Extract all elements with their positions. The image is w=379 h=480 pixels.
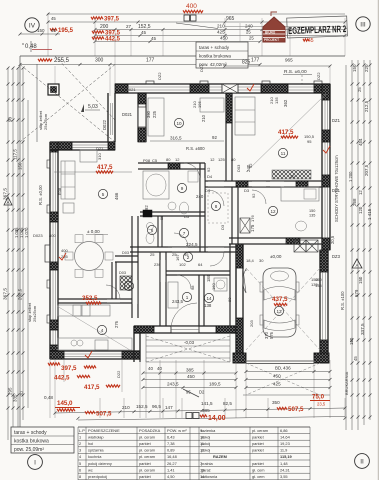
svg-text:138: 138: [204, 303, 212, 308]
svg-text:45: 45: [141, 30, 147, 35]
svg-text:92: 92: [212, 135, 217, 140]
svg-text:D03: D03: [236, 164, 241, 172]
svg-text:466: 466: [114, 192, 119, 200]
svg-text:45: 45: [51, 28, 57, 33]
column note slup zelbet (upper): [38, 110, 48, 130]
svg-text:210: 210: [122, 405, 130, 410]
svg-text:gł. cem: gł. cem: [252, 474, 265, 479]
pantry shelf wall (y262): [115, 256, 138, 262]
svg-text:177: 177: [146, 58, 155, 64]
svg-text:12: 12: [270, 209, 276, 214]
section marker A: [4, 197, 12, 205]
svg-text:64: 64: [198, 262, 203, 267]
svg-text:pow. 25,09m²: pow. 25,09m²: [14, 447, 44, 453]
boiler kotlownia: [214, 278, 227, 291]
svg-text:98: 98: [190, 285, 195, 290]
kitchen north wall (y299): [58, 285, 132, 303]
dining table round with chairs: [65, 235, 113, 278]
svg-text:C5: C5: [152, 158, 158, 163]
left bottom extension lines: [50, 360, 122, 418]
svg-text:80: 80: [227, 297, 232, 302]
svg-text:4: 4: [101, 328, 104, 333]
svg-text:D22: D22: [116, 370, 121, 378]
svg-text:D021: D021: [122, 112, 133, 117]
svg-text:450: 450: [187, 374, 195, 379]
red 145,0 row: [44, 395, 347, 415]
svg-text:pokój: pokój: [201, 448, 210, 453]
outer wall right upper: [322, 84, 330, 250]
svg-text:95: 95: [159, 215, 164, 220]
level note 5,03: [81, 104, 100, 112]
svg-text:25: 25: [150, 252, 155, 257]
svg-text:I: I: [34, 460, 36, 467]
svg-text:wiatrołap: wiatrołap: [88, 434, 104, 439]
svg-text:A: A: [355, 263, 358, 268]
svg-text:210: 210: [217, 24, 225, 29]
garage small dims: [249, 277, 318, 327]
red 417,5 bottom: [84, 384, 120, 391]
scan edge right: [377, 0, 379, 480]
wc fixtures: [146, 223, 154, 244]
svg-text:0,48: 0,48: [44, 395, 53, 400]
left small dims 150 / 45: [19, 28, 61, 36]
svg-text:16,48: 16,48: [167, 454, 177, 459]
wc east wall: [158, 216, 162, 247]
outer wall bottom living: [50, 351, 140, 359]
svg-text:4,50: 4,50: [167, 474, 175, 479]
room circle 11: [278, 148, 287, 157]
svg-text:442,5: 442,5: [105, 37, 121, 43]
svg-text:175: 175: [250, 224, 255, 232]
svg-text:240: 240: [196, 194, 204, 199]
svg-text:95: 95: [184, 252, 189, 257]
svg-text:1: 1: [79, 434, 81, 439]
svg-text:12: 12: [175, 157, 180, 162]
wiatrolap west wall: [160, 252, 166, 326]
bottom long line with 14,00: [77, 413, 347, 423]
svg-text:295: 295: [8, 387, 13, 395]
room circle 6: [147, 225, 156, 234]
svg-text:parkiet: parkiet: [252, 461, 265, 466]
svg-text:240: 240: [246, 164, 251, 172]
room 12 furniture: [250, 187, 319, 231]
red 442,5 bottom: [54, 375, 90, 382]
datum circle III: [356, 17, 370, 31]
svg-text:DZ3: DZ3: [332, 254, 341, 259]
svg-text:garaż: garaż: [201, 467, 211, 472]
svg-text:DZ2: DZ2: [316, 72, 321, 80]
svg-text:239: 239: [154, 262, 161, 267]
svg-text:352,5: 352,5: [82, 295, 98, 302]
right dimension chains: [330, 60, 372, 430]
svg-text:220: 220: [364, 64, 369, 72]
svg-text:367,5: 367,5: [3, 288, 9, 300]
svg-text:117,5: 117,5: [13, 149, 18, 160]
svg-text:120: 120: [358, 206, 363, 214]
svg-text:362: 362: [283, 99, 288, 107]
wall living-east / porch west: [134, 326, 140, 362]
svg-text:189,5: 189,5: [209, 382, 221, 387]
svg-text:417,5: 417,5: [84, 384, 100, 391]
svg-text:24,31: 24,31: [280, 467, 290, 472]
svg-text:kuchnia: kuchnia: [88, 454, 102, 459]
top dimension chains: [47, 3, 347, 56]
svg-text:210: 210: [201, 114, 206, 122]
svg-text:pralnia: pralnia: [201, 461, 214, 466]
svg-text:D021: D021: [126, 87, 136, 92]
room circle 8: [211, 201, 220, 210]
svg-text:parkiet: parkiet: [139, 461, 152, 466]
svg-text:45: 45: [51, 16, 56, 21]
svg-text:243,5: 243,5: [167, 382, 179, 387]
svg-text:DZ1: DZ1: [332, 188, 341, 193]
svg-text:III: III: [360, 22, 366, 29]
svg-text:400: 400: [186, 3, 197, 10]
svg-text:240: 240: [245, 24, 253, 29]
svg-text:13: 13: [276, 309, 282, 314]
svg-text:425: 425: [217, 30, 225, 35]
wall hol/wiatrolap horizontal (y271): [166, 271, 230, 275]
svg-text:pokój: pokój: [201, 434, 210, 439]
svg-text:D21: D21: [96, 146, 104, 151]
svg-text:184: 184: [206, 274, 211, 282]
svg-text:11: 11: [281, 151, 286, 156]
svg-text:965: 965: [226, 16, 235, 22]
svg-text:150: 150: [349, 337, 354, 345]
pantry door pier: [120, 276, 132, 290]
svg-text:316,5: 316,5: [170, 136, 182, 141]
svg-text:R.S. ±0,00: R.S. ±0,00: [38, 185, 43, 205]
svg-text:POSADZKA: POSADZKA: [139, 428, 161, 433]
room circle 1: [182, 292, 191, 301]
svg-text:7,38: 7,38: [167, 441, 175, 446]
svg-text:195,5: 195,5: [58, 28, 74, 34]
room table: [78, 427, 310, 480]
dashed RS line: [301, 75, 303, 84]
svg-text:pł. ceram: pł. ceram: [139, 454, 155, 459]
terrace column top-left: [48, 84, 59, 95]
chimney X blocks garage top: [294, 240, 318, 252]
interior dimension labels: [96, 99, 288, 345]
svg-text:400: 400: [61, 248, 68, 253]
garage diag guides: [246, 268, 320, 350]
wall entry south (wiatrolap bottom): [134, 326, 236, 333]
svg-text:96,5: 96,5: [152, 404, 161, 409]
svg-text:25x25cm: 25x25cm: [43, 113, 48, 130]
svg-text:DZ1: DZ1: [332, 118, 341, 123]
svg-text:parkiet: parkiet: [139, 441, 152, 446]
svg-text:25x25cm: 25x25cm: [32, 305, 37, 322]
svg-text:D5: D5: [184, 214, 190, 219]
wall hall/room10 vertical with door D021: [138, 93, 146, 142]
svg-text:115,19: 115,19: [280, 454, 293, 459]
wiatrolap wardrobe: [168, 282, 178, 308]
room 11 furniture: [235, 97, 255, 135]
room 11 dims 150,5 / 95: [248, 97, 315, 168]
attic hatch dashed: [208, 193, 228, 223]
left dimension chains: [3, 67, 30, 441]
label schody strychowe: [334, 155, 339, 222]
svg-text:268: 268: [352, 198, 357, 206]
svg-text:IV: IV: [29, 23, 36, 30]
svg-text:30: 30: [290, 174, 295, 179]
note box taras + schody 25,09: [11, 427, 74, 453]
svg-text:150: 150: [352, 64, 357, 72]
svg-text:kotłownia: kotłownia: [201, 474, 218, 479]
svg-text:150: 150: [358, 276, 363, 284]
svg-text:taras + schody: taras + schody: [14, 430, 47, 436]
svg-text:kostka brukowa: kostka brukowa: [199, 54, 231, 59]
column note slup zelbet (lower): [27, 302, 37, 322]
svg-text:8: 8: [79, 474, 81, 479]
room circle 9: [177, 183, 186, 192]
room circle 5: [98, 189, 107, 198]
extra small dims: [57, 157, 322, 304]
garage car: [260, 268, 299, 337]
svg-text:40: 40: [157, 366, 162, 371]
svg-text:224,5: 224,5: [186, 242, 198, 247]
red dim 352,5 (kitchen): [82, 295, 101, 304]
wall bath east (x200): [200, 163, 205, 252]
entry steps: [146, 333, 230, 362]
corridor top wall (y184): [205, 181, 322, 187]
bathroom fixtures: [143, 171, 204, 214]
svg-text:1 415: 1 415: [367, 208, 372, 220]
svg-text:pł. ceram: pł. ceram: [139, 467, 155, 472]
svg-text:D03: D03: [122, 251, 129, 255]
svg-text:gł. cem: gł. cem: [252, 467, 265, 472]
svg-text:92: 92: [144, 205, 149, 210]
svg-text:207,5: 207,5: [364, 164, 369, 176]
svg-text:450: 450: [220, 36, 228, 41]
garage door arc: [243, 269, 246, 293]
svg-text:6: 6: [151, 228, 154, 233]
wall room10/room11 vertical: [226, 93, 232, 181]
svg-text:397,5: 397,5: [61, 365, 77, 372]
outer wall garage right: [320, 250, 328, 363]
top extension drops to wall: [55, 66, 110, 96]
svg-text:A: A: [6, 200, 9, 205]
svg-text:337,5: 337,5: [360, 323, 365, 335]
svg-text:300: 300: [95, 58, 104, 64]
svg-text:spiżarnia: spiżarnia: [88, 448, 104, 453]
door arc hol-wiatrolap: [177, 275, 191, 289]
svg-text:6,86: 6,86: [280, 428, 288, 433]
svg-text:pł. ceram: pł. ceram: [139, 434, 155, 439]
svg-text:152,5: 152,5: [136, 404, 148, 409]
svg-text:417,5: 417,5: [97, 164, 113, 171]
svg-text:20,5: 20,5: [330, 235, 335, 244]
svg-text:436: 436: [283, 366, 291, 371]
svg-text:397,5: 397,5: [104, 17, 120, 23]
svg-text:R.S. ±100: R.S. ±100: [340, 291, 345, 310]
svg-text:135: 135: [315, 283, 322, 288]
svg-text:825: 825: [242, 60, 251, 66]
svg-text:150: 150: [315, 277, 322, 282]
label R.S. +-6,00: [283, 69, 312, 75]
terrace upper edge + 255,5 row: [19, 56, 346, 66]
svg-text:pł. ceram: pł. ceram: [252, 428, 268, 433]
svg-text:1,41: 1,41: [167, 467, 175, 472]
svg-text:150: 150: [37, 28, 45, 33]
garage apron dashes: [243, 363, 330, 395]
svg-text:310: 310: [97, 153, 102, 160]
living dim line y172: [54, 171, 132, 173]
svg-text:BD,: BD,: [275, 366, 282, 371]
room circle 7: [179, 228, 188, 237]
svg-text:E08: E08: [57, 187, 62, 195]
svg-text:212,5: 212,5: [364, 100, 369, 112]
svg-text:przedpokój: przedpokój: [88, 474, 107, 479]
svg-text:D4: D4: [205, 188, 211, 193]
svg-text:pokój: pokój: [201, 441, 210, 446]
svg-text:45: 45: [151, 36, 157, 41]
svg-text:176: 176: [250, 215, 255, 222]
svg-text:5: 5: [79, 461, 81, 466]
svg-text:łazienka: łazienka: [201, 428, 216, 433]
svg-text:parkiet: parkiet: [252, 434, 265, 439]
wall bath bottom (y212): [140, 212, 205, 216]
svg-text:± 0,00: ± 0,00: [87, 229, 100, 234]
svg-text:225: 225: [152, 110, 157, 118]
svg-text:576: 576: [269, 331, 274, 339]
svg-text:507,5: 507,5: [288, 406, 304, 413]
svg-text:14: 14: [206, 296, 212, 301]
red 75,0: [310, 394, 330, 407]
svg-text:507,5: 507,5: [96, 411, 112, 418]
terrace dashed outline top-left: [20, 56, 115, 430]
svg-text:II: II: [360, 459, 364, 466]
svg-text:147: 147: [165, 405, 173, 410]
section marker A right: [352, 259, 362, 268]
svg-text:3,55: 3,55: [280, 474, 288, 479]
svg-text:3: 3: [79, 448, 81, 453]
svg-text:12: 12: [358, 190, 363, 195]
bottom extension lines: [55, 360, 345, 418]
kitchen counters: [57, 248, 132, 350]
svg-text:D2: D2: [199, 390, 205, 395]
svg-text:454: 454: [358, 138, 363, 146]
svg-text:45: 45: [353, 356, 358, 361]
svg-text:26,27: 26,27: [167, 461, 177, 466]
svg-text:335: 335: [13, 394, 18, 402]
red check marks: [59, 84, 330, 358]
pantry west wall: [112, 262, 116, 299]
datum circle I: [28, 455, 43, 470]
svg-text:141,5: 141,5: [201, 401, 213, 406]
living room sofa set: [61, 150, 102, 213]
wiatrolap east wall: [230, 244, 236, 326]
svg-text:hol: hol: [88, 441, 93, 446]
svg-text:-0,03: -0,03: [184, 340, 195, 345]
svg-text:135: 135: [309, 214, 315, 218]
datum circle IV: [25, 18, 39, 32]
svg-text:18,4: 18,4: [246, 258, 255, 263]
outer wall top (with windows): [115, 81, 330, 93]
svg-text:taras + schody: taras + schody: [199, 45, 230, 50]
svg-text:14,00: 14,00: [208, 415, 226, 422]
room circle 12: [268, 206, 277, 215]
svg-text:R.S. ±6,00: R.S. ±6,00: [284, 69, 307, 75]
living level 0,00: [86, 229, 108, 235]
svg-text:D3: D3: [244, 188, 250, 193]
svg-text:90: 90: [8, 116, 13, 122]
svg-text:D3: D3: [220, 224, 225, 230]
svg-text:parkiet: parkiet: [139, 474, 152, 479]
svg-text:1 200: 1 200: [348, 171, 353, 182]
outer wall left: [45, 142, 58, 359]
svg-text:P08: P08: [143, 158, 151, 163]
svg-text:965: 965: [285, 58, 293, 63]
red dim 417,5 (living): [96, 164, 113, 173]
svg-text:255,5: 255,5: [54, 58, 70, 64]
svg-text:150: 150: [309, 209, 315, 213]
svg-text:kostka brukowa: kostka brukowa: [14, 439, 49, 445]
svg-text:R.S. ±600: R.S. ±600: [186, 146, 205, 151]
svg-text:82,5: 82,5: [223, 401, 232, 406]
label R.S. +-0,00 left: [38, 185, 43, 205]
svg-text:385: 385: [186, 368, 194, 373]
svg-text:437,5: 437,5: [272, 296, 288, 303]
svg-text:1: 1: [186, 295, 189, 300]
svg-text:parkiet: parkiet: [252, 441, 265, 446]
svg-text:2: 2: [79, 441, 81, 446]
svg-text:579: 579: [354, 289, 359, 297]
svg-text:BRUKARNIA: BRUKARNIA: [344, 371, 349, 395]
svg-text:D023: D023: [33, 233, 43, 238]
svg-text:167: 167: [175, 254, 180, 261]
svg-text:92: 92: [206, 167, 211, 172]
svg-text:30: 30: [259, 258, 264, 263]
stamp box EGZEMPLARZ NR 2: [287, 16, 348, 38]
svg-text:D4: D4: [207, 174, 213, 179]
hall/kitchen opening arcs: [171, 163, 266, 329]
svg-text:243,5: 243,5: [172, 299, 184, 304]
svg-text:417,5: 417,5: [278, 129, 294, 136]
svg-text:203: 203: [249, 320, 254, 327]
svg-text:75,0: 75,0: [312, 394, 325, 401]
svg-text:23,5: 23,5: [317, 402, 326, 407]
svg-text:3: 3: [128, 284, 131, 289]
svg-text:EGZEMPLARZ NR 2: EGZEMPLARZ NR 2: [288, 24, 346, 37]
svg-text:95: 95: [307, 139, 312, 144]
red 397,5 bottom: [48, 363, 96, 372]
svg-text:80: 80: [231, 157, 236, 162]
svg-text:D03: D03: [119, 271, 126, 275]
room 10 furniture: [148, 98, 224, 136]
svg-text:5,03: 5,03: [88, 104, 98, 110]
svg-text:8: 8: [215, 204, 218, 209]
room12 west wall: [232, 187, 238, 244]
terrace edge line left: [36, 64, 38, 142]
stamp logo: [263, 12, 285, 42]
dim 825: [224, 58, 332, 68]
svg-text:POMIESZCZENIE: POMIESZCZENIE: [88, 428, 120, 433]
shaft square room12: [240, 218, 250, 233]
svg-text:0,89: 0,89: [167, 448, 175, 453]
level -0,48: [22, 41, 52, 52]
svg-text:390: 390: [146, 110, 151, 118]
svg-text:145,0: 145,0: [57, 400, 73, 407]
garage south wall + gate: [233, 353, 329, 364]
svg-text:BIURO: BIURO: [265, 31, 276, 35]
385 + red 507,5 right: [202, 406, 304, 413]
red 507,5 left: [85, 411, 112, 418]
svg-text:D022: D022: [102, 119, 107, 130]
svg-text:92: 92: [251, 193, 256, 198]
svg-text:177: 177: [251, 58, 260, 64]
svg-text:200: 200: [100, 24, 109, 30]
